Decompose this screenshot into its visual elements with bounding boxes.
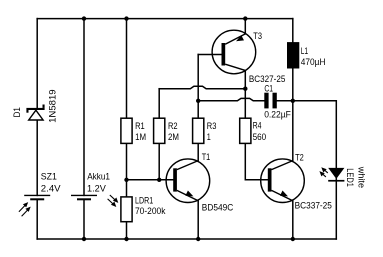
LDR1 photoresistor: [121, 197, 132, 222]
transistor T2 NPN: [261, 159, 305, 203]
wire T3 emitter lead: [244, 19, 246, 34]
node junction row2 L1 bottom: [291, 99, 295, 103]
svg-text:D1: D1: [12, 107, 23, 117]
svg-text:R2: R2: [168, 121, 178, 132]
wire Akku1 branch upper: [83, 19, 85, 196]
node junction base row R1-LDR: [124, 178, 128, 182]
capacitor C1 plates: [264, 93, 277, 109]
svg-text:1: 1: [207, 132, 211, 143]
svg-text:560: 560: [253, 132, 267, 143]
svg-text:T1: T1: [202, 152, 211, 163]
wire T1 emitter lead: [197, 201, 199, 239]
svg-text:LED1: LED1: [344, 168, 355, 187]
wire T3 base horizontal: [198, 54, 221, 56]
svg-text:R4: R4: [253, 121, 262, 132]
svg-text:2.4V: 2.4V: [41, 184, 61, 195]
svg-text:470µH: 470µH: [301, 57, 326, 68]
svg-text:70-200k: 70-200k: [135, 206, 166, 217]
svg-text:1N5819: 1N5819: [47, 89, 58, 123]
svg-text:T3: T3: [253, 31, 262, 42]
wire node row2 left (T1 collector to C1) with hop over R4 column: [198, 98, 264, 100]
svg-text:LDR1: LDR1: [135, 196, 153, 207]
wire left rail lower (D1 anode to SZ1): [36, 121, 38, 196]
svg-text:1.2V: 1.2V: [87, 184, 106, 195]
wire T1 base row: [127, 179, 174, 181]
light arrows into SZ1: [19, 202, 31, 216]
node junction bottom rail T1 emitter: [196, 237, 200, 241]
wire R1 bottom to LDR1 top: [126, 144, 128, 196]
resistor R1: [121, 118, 132, 143]
node junction row2 T1 collector: [196, 99, 200, 103]
wire L1 top lead: [292, 19, 294, 42]
node junction top rail T3 emitter: [243, 16, 247, 20]
resistor R2: [154, 118, 165, 143]
node junction bottom rail LDR: [124, 237, 128, 241]
wire L1 bottom to T2 collector: [292, 69, 294, 161]
wire bottom rail: [37, 238, 336, 240]
svg-text:2M: 2M: [168, 132, 179, 143]
wire R2 bottom lead: [158, 144, 160, 180]
node junction row1 T3 collector: [243, 87, 247, 91]
svg-text:R1: R1: [135, 121, 145, 132]
svg-text:1M: 1M: [135, 132, 146, 143]
diode D1 schottky symbol: [26, 105, 44, 121]
wire left rail upper (to D1 cathode): [36, 19, 38, 108]
solar cell SZ1 plates: [24, 195, 50, 199]
wire T3 collector to R4: [244, 70, 246, 117]
wire SZ1 bottom to bottom rail: [36, 199, 38, 239]
resistor R3: [193, 118, 204, 143]
wire top rail: [37, 18, 293, 20]
wire T2 emitter lead: [292, 201, 294, 239]
node junction top rail R1: [124, 16, 128, 20]
inductor L1: [287, 42, 299, 68]
svg-text:BD549C: BD549C: [202, 202, 233, 213]
wire LDR1 bottom lead: [126, 222, 128, 239]
node junction bottom rail T2 emitter: [291, 237, 295, 241]
svg-text:Akku1: Akku1: [87, 171, 110, 182]
node junction bottom rail Akku: [82, 237, 86, 241]
svg-text:0.22µF: 0.22µF: [264, 109, 291, 120]
svg-text:T2: T2: [295, 152, 304, 163]
light arrows into LDR1: [108, 195, 119, 207]
wire node row2 right (C1 to LED corner): [277, 101, 337, 239]
svg-text:L1: L1: [301, 46, 308, 57]
light arrows out of LED1: [319, 167, 327, 177]
wire R1 top lead: [126, 19, 128, 118]
resistor R4: [240, 118, 251, 143]
node junction base row R2: [157, 178, 161, 182]
svg-text:SZ1: SZ1: [41, 171, 57, 182]
svg-text:BC337-25: BC337-25: [295, 201, 332, 212]
LED1 symbol: [328, 168, 344, 182]
svg-text:R3: R3: [207, 121, 217, 132]
wire R3 bottom to T1 collector: [197, 144, 199, 161]
wire R4 bottom to T2 base corner: [245, 144, 267, 180]
wire Akku1 branch lower: [83, 199, 85, 239]
svg-text:C1: C1: [264, 84, 273, 95]
wire R2 top lead: [158, 89, 160, 118]
svg-text:white: white: [356, 166, 367, 188]
wire node row1 with hop over R3 column: [159, 86, 245, 88]
node junction top rail Akku: [82, 16, 86, 20]
wire R3 column T3 base to R3: [197, 55, 199, 118]
transistor T1 NPN: [166, 159, 210, 203]
battery Akku1 plates: [71, 195, 97, 199]
transistor T3 PNP: [212, 30, 256, 74]
